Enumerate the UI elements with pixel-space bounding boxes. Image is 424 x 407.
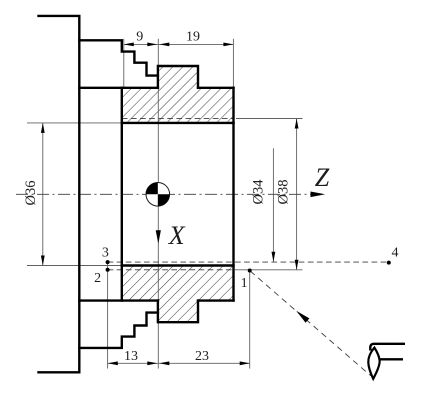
svg-text:23: 23 <box>195 349 209 364</box>
svg-text:Ø38: Ø38 <box>276 180 292 205</box>
svg-text:Ø36: Ø36 <box>23 181 39 206</box>
svg-text:1: 1 <box>241 276 248 291</box>
svg-text:9: 9 <box>136 30 143 45</box>
svg-text:Ø34: Ø34 <box>251 179 267 205</box>
svg-text:3: 3 <box>102 246 109 261</box>
svg-text:2: 2 <box>94 271 101 286</box>
svg-text:13: 13 <box>124 349 138 364</box>
svg-text:19: 19 <box>186 30 200 45</box>
svg-text:X: X <box>168 221 186 250</box>
svg-text:4: 4 <box>392 246 399 261</box>
svg-text:Z: Z <box>315 163 330 192</box>
